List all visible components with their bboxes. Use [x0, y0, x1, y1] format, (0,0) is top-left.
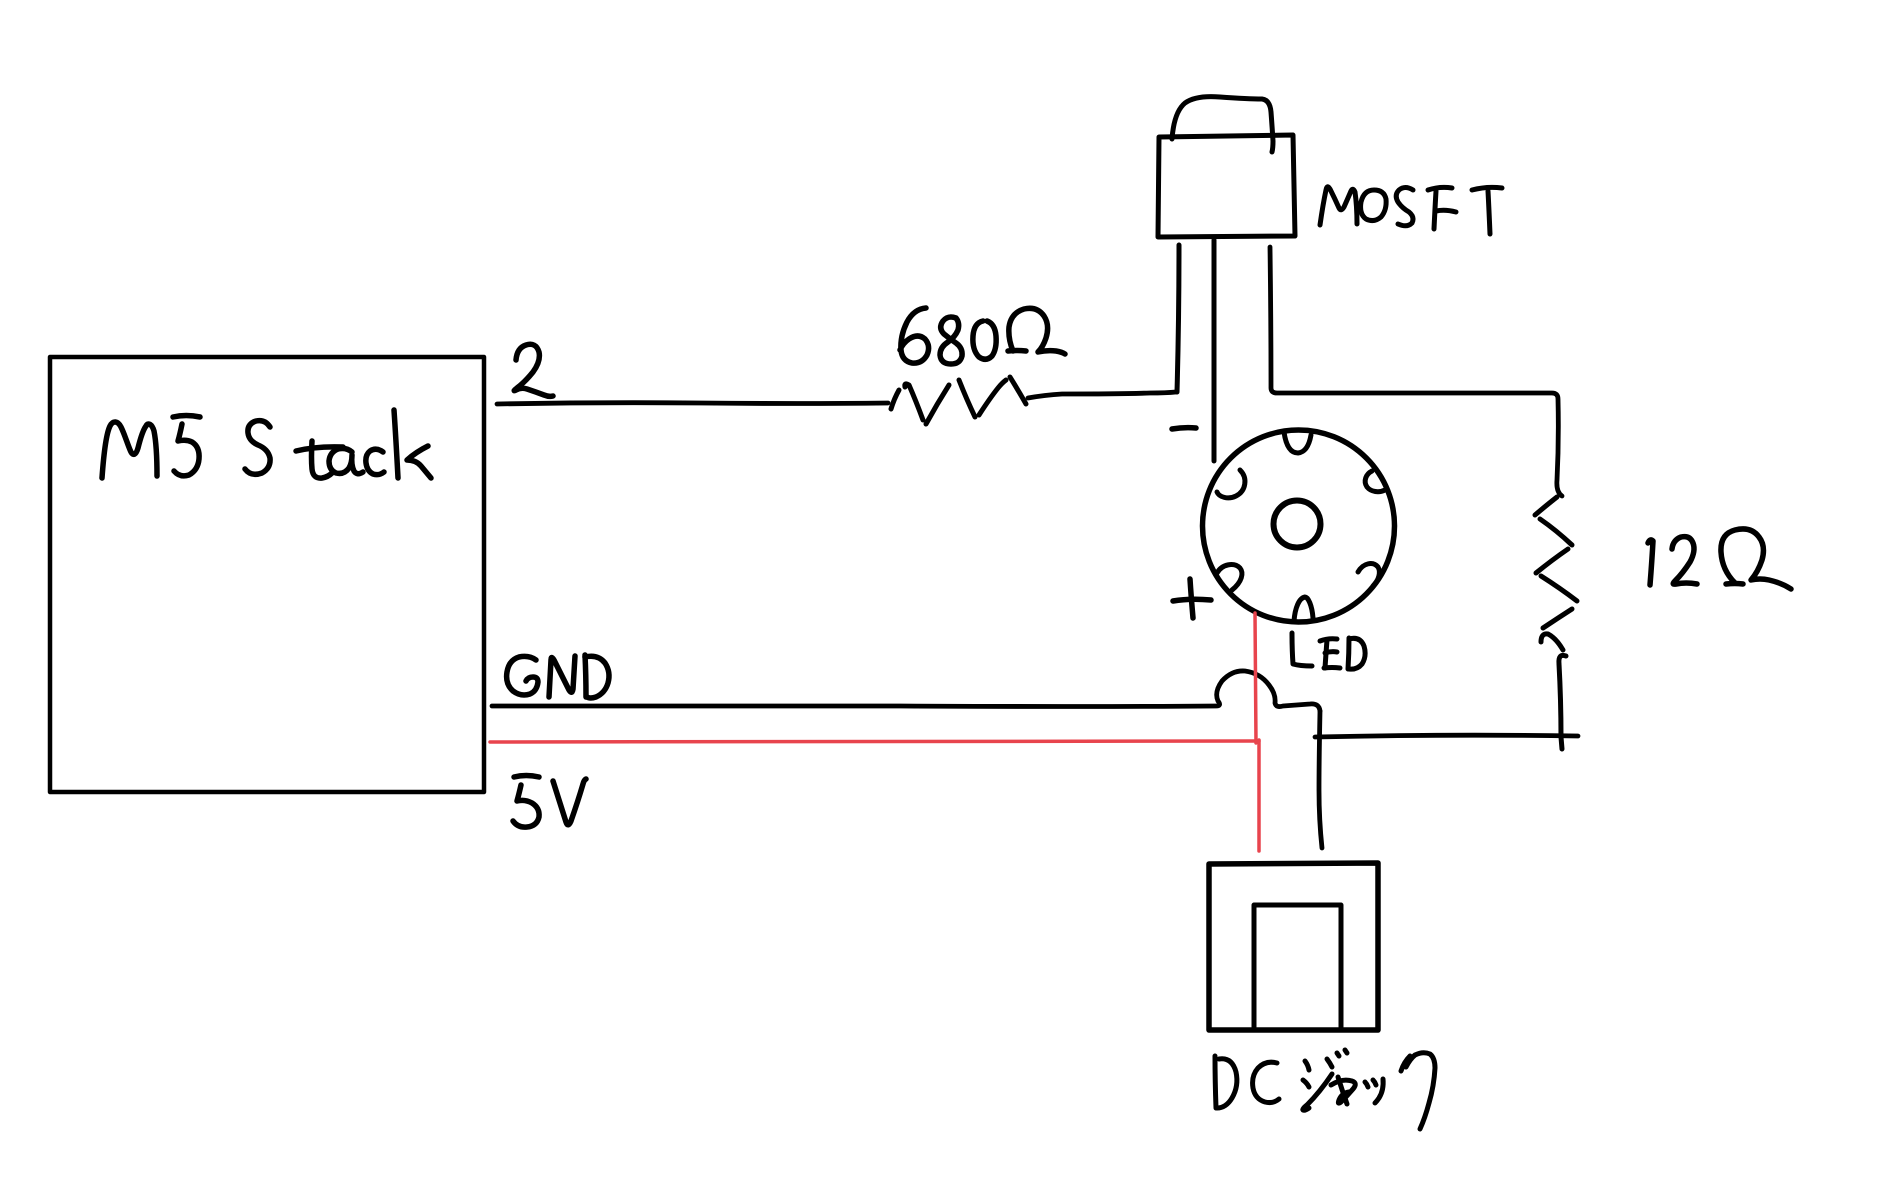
label DC jack: [1215, 1050, 1435, 1129]
5V red wire horizontal: [490, 741, 1259, 742]
label LED: [1292, 633, 1365, 669]
5V red wire vertical upper segment to LED plus: [1255, 613, 1256, 743]
resistor R2 12 ohm: [1535, 497, 1577, 749]
DC jack J1 outer: [1209, 863, 1378, 1030]
wire pin2 to resistor: [497, 403, 888, 404]
GND wire down to DC jack: [1319, 711, 1322, 848]
label MOSFT: [1320, 187, 1502, 234]
MOSFET source leg: [1212, 240, 1217, 461]
LED rim notches: [1217, 432, 1385, 621]
resistor R1 680 ohm: [891, 377, 1026, 424]
M5Stack box U1: [50, 357, 484, 792]
wire resistor to MOSFET gate: [1028, 392, 1176, 398]
5V red wire vertical lower segment to DC jack: [1257, 740, 1261, 851]
minus sign: [1172, 428, 1196, 429]
label 12 ohm: [1648, 529, 1791, 589]
LED inner circle: [1274, 501, 1321, 548]
label GND: [507, 655, 609, 698]
label 5V: [513, 776, 586, 828]
LED D1 outer circle: [1203, 430, 1395, 622]
GND wire with hop over 5V wire: [492, 671, 1320, 711]
DC jack inner: [1254, 905, 1341, 1027]
label M5 Stack: [102, 410, 431, 478]
MOSFET gate leg: [1177, 245, 1179, 392]
MOSFET dome: [1172, 97, 1273, 152]
plus sign: [1173, 579, 1211, 618]
MOSFET Q1 body: [1158, 135, 1295, 237]
wire 12 ohm bottom to DC jack node: [1315, 735, 1578, 737]
pin label 2: [514, 344, 553, 396]
label 680 ohm: [900, 308, 1065, 364]
MOSFET drain leg and wire to 12 ohm resistor: [1270, 247, 1562, 496]
